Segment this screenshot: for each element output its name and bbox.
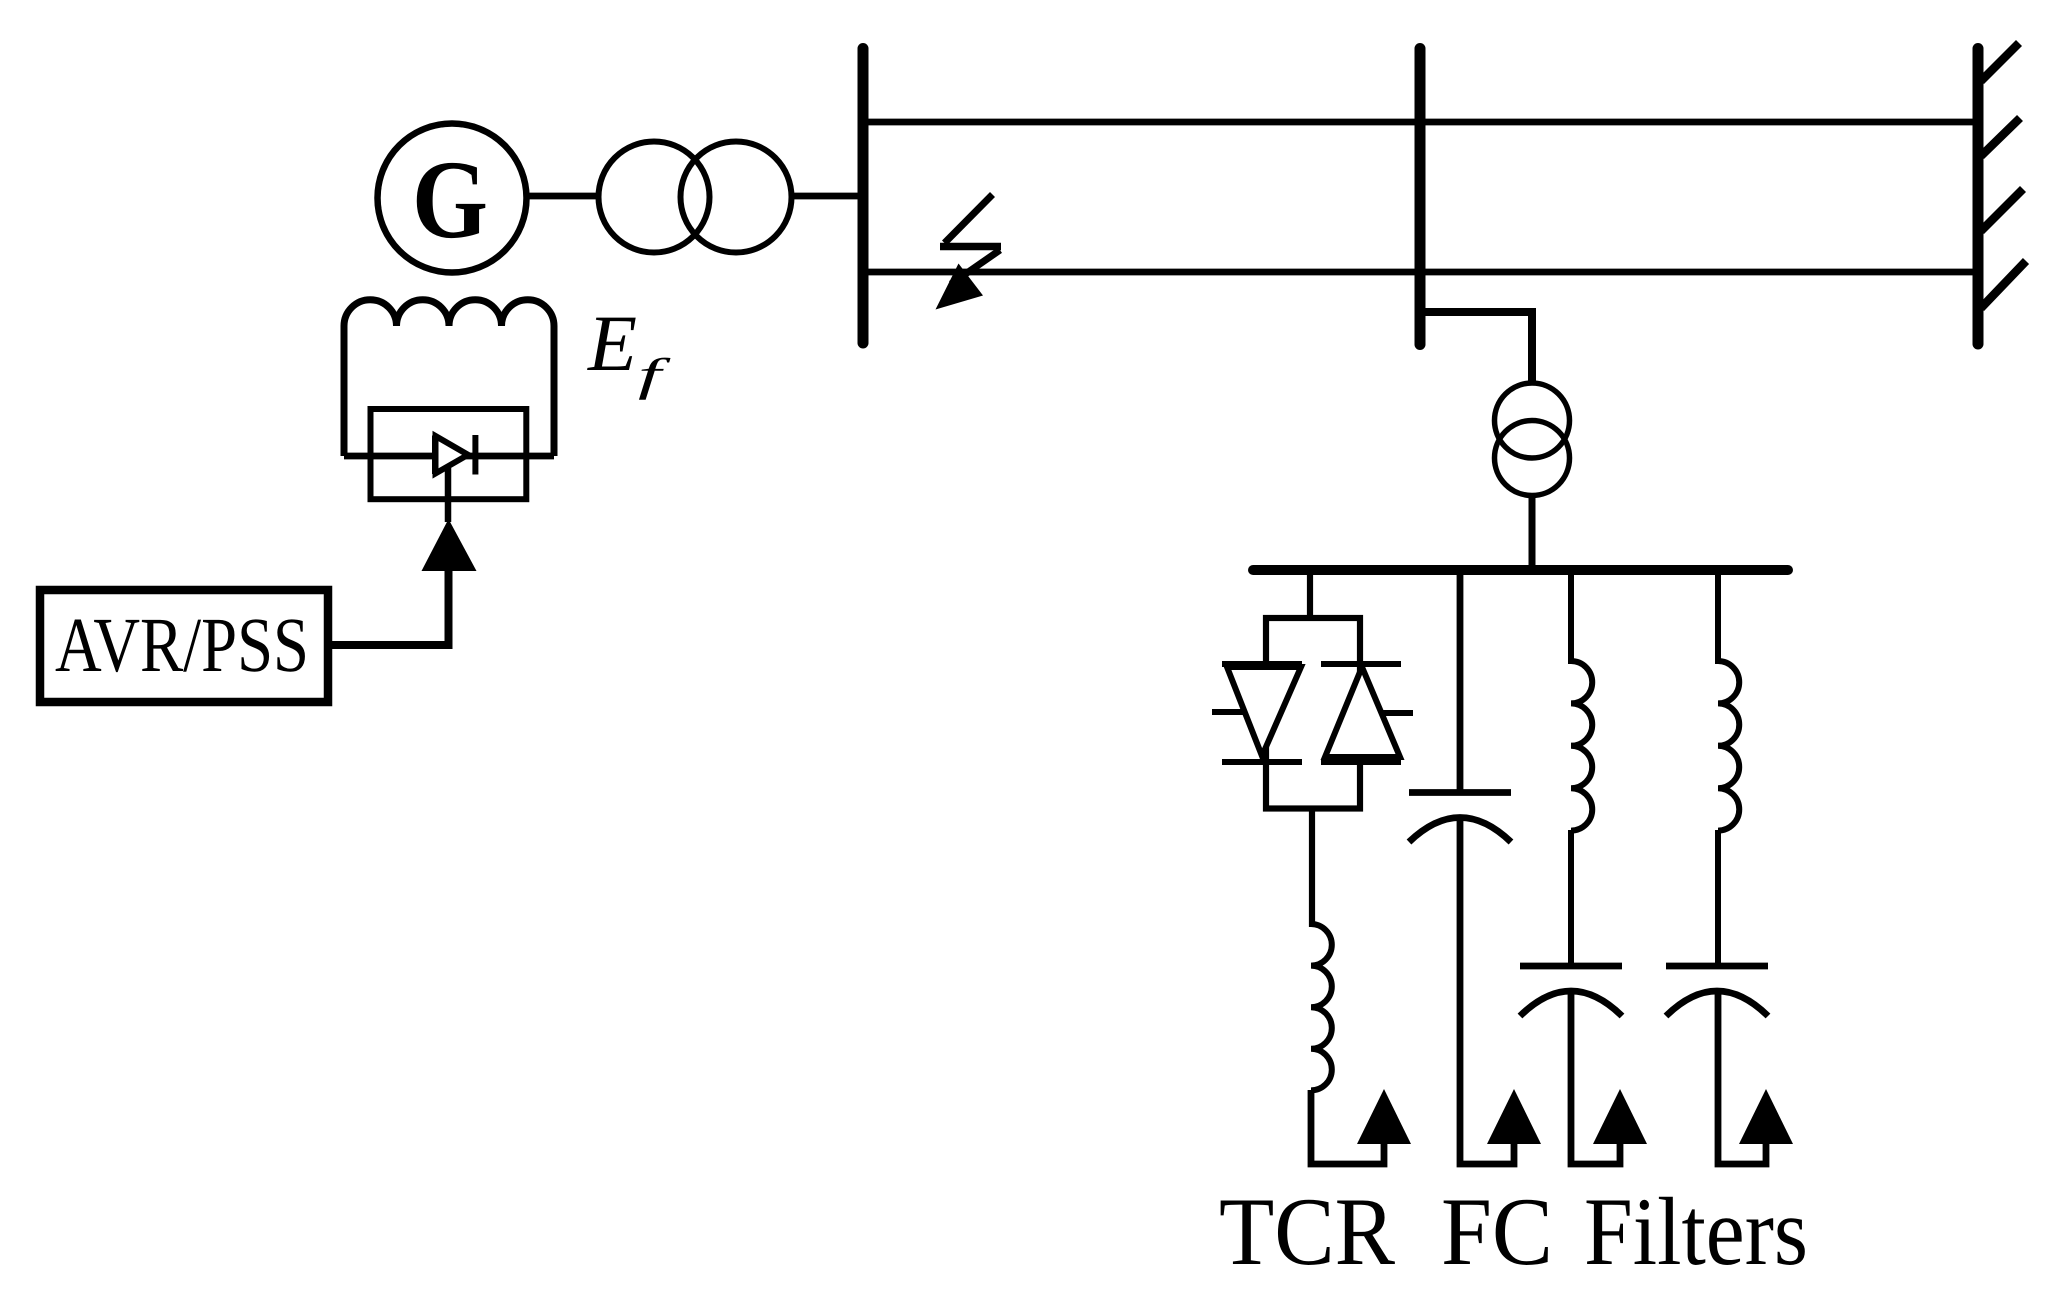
thyristor rectifier cathode bar xyxy=(472,435,478,475)
filter 2 wire to ground arrow xyxy=(1718,990,1766,1164)
TCR ground arrow xyxy=(1357,1089,1411,1144)
filter 2 capacitor flat plate xyxy=(1666,963,1768,970)
svg-text:AVR/PSS: AVR/PSS xyxy=(55,601,309,688)
wire TCR rectangle to reactor xyxy=(1309,808,1315,927)
FC ground arrow xyxy=(1487,1089,1541,1144)
thyristor V1 cathode bar xyxy=(1222,759,1302,765)
filter 1 wire to ground arrow xyxy=(1571,990,1620,1164)
TCR reactor coil xyxy=(1311,924,1332,1090)
TCR valve rectangle xyxy=(1266,618,1360,809)
svg-text:G: G xyxy=(412,138,488,262)
fault lightning bolt bar xyxy=(940,243,1001,251)
wall hatch 1 xyxy=(1981,43,2019,81)
filter 1 capacitor flat plate xyxy=(1520,963,1622,970)
TCR branch stub from SVC bus xyxy=(1307,572,1313,618)
bus 2 xyxy=(1415,49,1426,345)
filter 1 reactor coil xyxy=(1571,661,1592,831)
transmission line bottom xyxy=(863,269,1980,276)
filter 2 reactor coil xyxy=(1718,661,1739,831)
filter 2 capacitor curved plate xyxy=(1666,991,1768,1016)
fault lightning bolt stroke 1 xyxy=(945,195,993,244)
thyristor V2 cathode bar xyxy=(1321,661,1401,667)
filter 1 capacitor curved plate xyxy=(1520,991,1622,1016)
thyristor V1 gate stub xyxy=(1212,709,1246,715)
filter 1 wire reactor to capacitor xyxy=(1568,830,1574,966)
FC capacitor flat plate xyxy=(1409,789,1511,796)
wire generator to transformer T1 xyxy=(524,193,601,200)
thyristor rectifier triangle xyxy=(432,436,439,475)
FC capacitor curved plate xyxy=(1409,818,1511,843)
filter 2 wire reactor to capacitor xyxy=(1715,830,1721,966)
generator G1 circle xyxy=(378,124,527,273)
excitation control arrow xyxy=(422,519,477,571)
wall hatch 2 xyxy=(1981,118,2020,156)
wire TCR reactor to ground arrow xyxy=(1311,1090,1384,1164)
bus 1 xyxy=(858,49,869,344)
thyristor V2 gate stub xyxy=(1380,710,1413,716)
wall hatch 4 xyxy=(1981,261,2026,308)
FC branch wire from SVC bus xyxy=(1457,572,1464,792)
filter 2 ground arrow xyxy=(1739,1089,1793,1144)
thyristor V1 triangle xyxy=(1227,667,1301,756)
AVR/PSS box xyxy=(40,590,328,702)
wire T2 to SVC bus xyxy=(1529,495,1536,568)
transformer T1 secondary circle xyxy=(681,142,792,253)
wire arrow to AVR/PSS xyxy=(330,568,449,645)
exciter rectangle xyxy=(371,409,527,499)
thyristor V2 anode line xyxy=(1321,759,1401,765)
filter 2 wire from SVC bus xyxy=(1715,572,1721,664)
transmission line top xyxy=(863,119,1980,126)
infinite bus wall xyxy=(1973,49,1984,345)
svg-text:FC: FC xyxy=(1441,1178,1553,1285)
svg-text:f: f xyxy=(638,349,672,400)
svg-text:E: E xyxy=(587,300,637,388)
field winding wire through rectifier xyxy=(344,453,554,460)
SVC bus xyxy=(1253,565,1788,575)
wall hatch 3 xyxy=(1981,189,2023,231)
fault lightning bolt stroke 2 xyxy=(951,250,1000,284)
thyristor V2 triangle xyxy=(1325,667,1400,757)
thyristor V1 anode line xyxy=(1222,661,1302,667)
filter 1 wire from SVC bus xyxy=(1568,572,1574,664)
wire bus 2 to SVC transformer xyxy=(1420,312,1532,384)
svg-text:TCR: TCR xyxy=(1219,1178,1395,1285)
wire FC capacitor to ground arrow xyxy=(1460,817,1514,1164)
fault arrowhead xyxy=(936,264,984,310)
wire transformer T1 to bus 1 xyxy=(789,193,864,200)
svg-text:Filters: Filters xyxy=(1584,1178,1808,1285)
SVC transformer T2 lower circle xyxy=(1495,421,1570,496)
SVC transformer T2 upper circle xyxy=(1495,383,1570,458)
transformer T1 primary circle xyxy=(599,142,710,253)
thyristor rectifier gate lead xyxy=(445,468,452,522)
filter 1 ground arrow xyxy=(1593,1089,1647,1144)
field winding coil xyxy=(344,300,554,456)
